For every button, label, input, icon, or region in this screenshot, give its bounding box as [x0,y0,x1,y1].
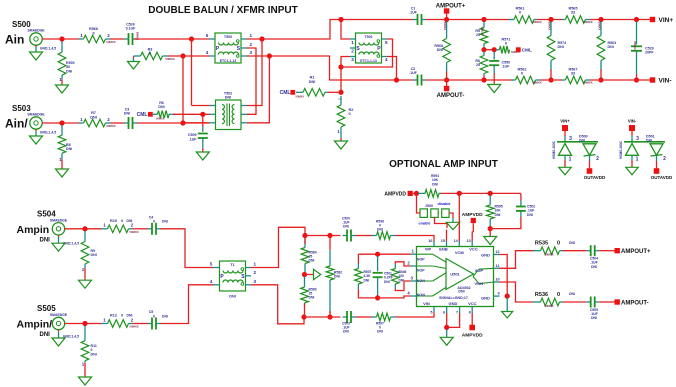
svg-text:DNI: DNI [91,352,97,356]
capacitor C505 .1UF DNI [586,301,591,303]
resistor R595 10K DNI [489,195,491,205]
ground at D500 [559,167,572,175]
node C550 top [492,47,497,52]
svg-text:CML: CML [522,48,532,53]
ground at R595 [484,237,497,245]
capacitor C529 20PF [636,22,638,45]
svg-text:11: 11 [495,264,499,268]
resistor R1 DNI (CML) [296,91,303,93]
resistor R546 100 DNI [395,262,410,266]
svg-text:25: 25 [476,33,480,37]
svg-text:enable: enable [418,222,430,226]
resistor R536 0 DNI [533,301,541,303]
svg-text:3: 3 [636,136,639,142]
svg-text:SMAEDGE: SMAEDGE [50,218,68,222]
ground at R500 [61,79,63,85]
svg-text:DNI: DNI [579,138,585,142]
node Ain/ to T502 [180,120,185,125]
node Ampin/ junction [82,321,87,326]
pin stubs U501 right [494,254,500,256]
resistor R3 0 (grounds T500 pin4 line) [134,55,136,57]
svg-text:DNI: DNI [364,278,370,282]
resistor R500 50 DNI (Ain termination) [61,41,63,52]
resistor R9 50 DNI [84,231,86,242]
resistor R6 DNI (CML feed) [153,113,158,115]
svg-text:4: 4 [210,279,213,284]
node AMPVDD junction [413,192,418,194]
wire R567 to VIN- [590,79,653,81]
wire T500 pin3 to bottom rail [247,56,414,80]
svg-text:AMPVDD: AMPVDD [462,333,483,339]
svg-text:50MXX: 50MXX [532,20,541,24]
capacitor C526 0.1UF [124,38,129,40]
svg-text:2: 2 [254,270,257,275]
pin stubs T502 [210,105,216,107]
wire R596 to VIP pin [396,236,435,242]
capacitor C509 .1UF (center tap decoupling) [202,117,204,127]
wire C500 to R596 [356,235,372,237]
svg-text:50MXX: 50MXX [129,325,138,329]
transformer T501 ETC1-1-13 (mirrored) [356,33,382,63]
svg-text:50MXX: 50MXX [106,40,115,44]
capacitor C3 DNI [124,122,129,124]
svg-text:1: 1 [250,33,253,38]
resistor R594 10K DNI [418,192,425,194]
pin stubs T1 [214,267,220,269]
svg-text:0.1UF: 0.1UF [126,27,137,31]
svg-text:DNI: DNI [569,241,575,245]
resistor R507 4.3K DNI [357,254,359,263]
node Ampin junction [82,226,87,231]
svg-text:5: 5 [210,262,213,267]
svg-text:1: 1 [351,40,354,45]
svg-text:5: 5 [430,310,432,314]
node amp ground [444,325,449,330]
ground at R9 [79,280,92,288]
resistor R562 0 [511,79,516,81]
svg-text:GND;1,4,5: GND;1,4,5 [40,131,56,135]
svg-text:5: 5 [385,40,388,45]
svg-text:DNI: DNI [225,96,231,100]
svg-text:VON: VON [474,281,483,286]
svg-text:DNI: DNI [384,280,390,284]
transformer T502 DNI (rotated) [216,100,242,130]
svg-text:R566: R566 [89,27,98,31]
svg-text:9: 9 [497,292,499,296]
svg-text:R12: R12 [110,314,117,318]
svg-text:0: 0 [557,240,560,246]
ground at amp [440,337,453,345]
node R582 top [327,233,332,238]
wire pin10 to R536 [500,282,534,302]
net CML square (divider) [516,47,521,52]
terminal AMPOUT- [446,80,448,86]
svg-text:VIN+: VIN+ [659,17,674,24]
svg-text:DNI: DNI [558,45,564,49]
svg-text:SMAEDGE: SMAEDGE [50,313,68,317]
wire VIP rail [305,235,341,237]
resistor R597 0 DNI (VIN rail) [372,316,377,318]
node CML mid divider [481,47,486,52]
capacitor C501 0.2PF DNI [377,256,379,271]
svg-text:T500: T500 [224,35,232,39]
vertical wire to T502 pin4 [182,56,184,123]
node VIN rail junction [301,314,306,319]
node AMPOUT+ rail corner [338,17,343,22]
node R595 bottom [488,226,493,231]
ground at S500 [35,45,37,47]
terminal OUTAVDD at D500 [587,168,593,174]
resistor R596 0 DNI (VIP rail) [372,235,377,237]
svg-text:OPTIONAL AMP INPUT: OPTIONAL AMP INPUT [389,159,498,170]
wire C503 to R597 [356,316,372,318]
svg-text:50MXX: 50MXX [106,124,115,128]
svg-text:Ampin: Ampin [17,224,50,236]
diode D500B (to OUTAVDD) [583,144,596,156]
ground at S503 [35,129,37,131]
svg-text:DOUBLE BALUN / XFMR INPUT: DOUBLE BALUN / XFMR INPUT [148,5,297,16]
svg-text:DNI: DNI [90,115,97,119]
terminal AMPOUT+ output [615,248,620,253]
svg-text:NON: NON [417,279,425,283]
node T501 CML node [338,64,343,69]
wire Ampin/ line [65,323,102,325]
wire T502 left pins [192,105,210,107]
svg-text:S504: S504 [37,210,56,219]
svg-text:DNI: DNI [91,253,97,257]
svg-text:2: 2 [250,42,253,47]
svg-text:DNI: DNI [124,112,130,116]
node R563 bottom [598,77,603,82]
svg-text:AMPVDD: AMPVDD [462,212,483,218]
svg-text:50MXX: 50MXX [544,304,553,308]
svg-text:AMPVDD: AMPVDD [384,191,406,197]
node amp output ground [505,294,510,299]
diode pair D501 DNI common bar [624,141,665,143]
svg-text:.1UF: .1UF [409,11,418,15]
svg-text:SMAEDGE: SMAEDGE [27,113,45,117]
wire C5 to T1 pin 4 [161,285,214,324]
svg-text:VIN-: VIN- [659,77,672,84]
svg-text:0: 0 [149,52,151,56]
svg-text:DNI: DNI [40,332,51,338]
svg-text:VIN-: VIN- [628,119,637,124]
node C529 top [634,17,639,22]
wire R562 to R567 [540,79,562,81]
resistor R584 25 DNI [304,238,306,248]
ground at output pins [502,312,513,319]
node Ain- branch junction [180,53,185,58]
wire R566 to C526 [111,38,125,40]
diode D500A (to ground) [559,144,572,156]
node AMPOUT+ junction [444,17,449,22]
transformer T500 ETC1-1-13 [215,33,241,63]
diode D501B (to OUTAVDD) [650,144,663,156]
ground at S505 [58,330,60,332]
pin stubs U501 top [433,241,435,247]
svg-text:DNI: DNI [158,105,164,109]
wire Ain/ line [42,122,78,124]
svg-text:S503: S503 [12,104,31,113]
wire T500 pin2 to T502 [247,48,257,114]
node Ain junction [59,36,64,41]
node T502 sec junction [267,53,272,58]
svg-text:ENB: ENB [439,247,448,252]
resistor R561 0 [509,19,514,21]
node VCM branch [457,191,462,196]
ground at S504 [58,235,60,237]
svg-text:Ampin/: Ampin/ [17,319,53,331]
svg-text:AMPOUT+: AMPOUT+ [621,249,651,255]
node B junction [375,295,380,300]
svg-text:DNI: DNI [495,213,501,217]
svg-text:SMAEDGE: SMAEDGE [27,29,45,33]
svg-text:DNI: DNI [343,330,349,334]
svg-text:DNI: DNI [343,225,349,229]
svg-text:VIP: VIP [425,247,432,252]
enable triangle on ENB net [446,222,459,229]
svg-text:ETC1-1-13: ETC1-1-13 [360,59,377,63]
resistor R8 50 DNI [61,125,63,135]
svg-text:DNI: DNI [432,182,438,186]
wire amp pin1 node A [358,253,410,255]
capacitor C2 .1UF [413,79,418,81]
svg-text:DNI: DNI [527,213,533,217]
svg-text:R7: R7 [91,111,96,115]
svg-text:50MXX: 50MXX [633,41,637,50]
svg-text:20PF: 20PF [645,51,654,55]
ground at R3 [133,56,135,58]
svg-text:SIGNAL=GND;17: SIGNAL=GND;17 [439,296,468,300]
ground at C509 [196,152,209,160]
wire T1 pin1 to amp VIP rail [251,227,305,267]
svg-text:VCM: VCM [455,250,465,255]
wire R7 to C3 [111,122,125,124]
svg-text:7: 7 [456,310,458,314]
svg-text:CML: CML [137,112,148,118]
wire amp GND pins to ground [446,313,448,327]
svg-text:50MXX: 50MXX [532,81,541,85]
resistor R6 25 [483,52,485,56]
svg-text:12: 12 [495,250,499,254]
wire C3 to T502 pin [137,122,210,124]
node R563 top [598,17,603,22]
node A junction [375,252,380,257]
connector S500 (SMAEDGE) Ain [30,33,42,45]
svg-text:13: 13 [466,239,470,243]
wire VIN rail [304,316,341,318]
svg-text:DNI: DNI [309,80,316,84]
svg-text:DNI: DNI [569,292,575,296]
op-amp U501 AD4932 DNI [417,247,494,307]
wire T500 pin1 to top rail [247,20,414,40]
resistor R12 0 DNI [102,323,108,325]
svg-text:0: 0 [557,292,560,298]
ground at C550 [488,85,501,93]
node R595 branch [488,191,493,196]
diode pair D500 DNI common bar [557,141,598,143]
resistor R5 25 [483,22,485,28]
wire T1 pin3 to amp VIN rail [251,285,304,324]
diode D501A (to ground) [626,144,639,156]
resistor R567 33 [562,79,565,81]
wire J500 pin3 [449,213,453,218]
node R6 bottom [481,77,486,82]
wire pin11 to R535 [500,251,534,269]
pin stubs T501 [350,38,356,40]
svg-text:DNI: DNI [591,265,597,269]
wire Ampin line [65,228,102,230]
wire AMPVDD rail [441,192,521,194]
svg-text:NOP: NOP [417,257,425,261]
wire R536 to C505 [563,301,586,303]
svg-text:.1UF: .1UF [409,71,418,75]
wire R595/C502 bottom to ground [489,229,491,237]
svg-text:50MXX: 50MXX [583,20,592,24]
svg-text:HSMS-280C: HSMS-280C [552,140,556,159]
resistor R10 0 DNI [102,228,108,230]
wire C4 to T1 pin 5 [161,229,214,268]
svg-text:DNI: DNI [162,314,168,318]
svg-text:DNI: DNI [646,138,652,142]
wire R597 to VIN pin [396,312,435,317]
svg-text:6: 6 [443,310,445,314]
svg-text:DNI: DNI [229,294,236,298]
svg-text:J500: J500 [425,204,433,208]
svg-text:0: 0 [153,314,155,318]
wire C504 to AMPOUT+ [599,250,614,252]
node VOCM sense [302,272,307,277]
svg-text:DNI: DNI [309,296,315,300]
svg-text:DNI: DNI [66,69,72,73]
wire T501 pin3 to CML node [341,57,350,68]
node AMPOUT- rail at T501 [394,77,399,82]
svg-text:50MXX: 50MXX [544,253,553,257]
svg-text:3: 3 [569,136,572,142]
svg-text:1: 1 [569,157,572,163]
svg-text:DNI: DNI [162,220,168,224]
wire VOP to R535 [500,255,508,297]
capacitor C503 .1UF DNI (VIN rail) [343,316,348,318]
svg-text:0: 0 [121,219,123,223]
svg-text:R10: R10 [110,219,117,223]
svg-text:NOP: NOP [417,269,425,273]
svg-text:5: 5 [206,33,209,38]
svg-text:VOP: VOP [475,268,484,273]
svg-text:T501: T501 [364,35,372,39]
svg-text:0: 0 [505,42,507,46]
svg-text:Ain: Ain [5,33,24,47]
wire divider mid to C550 [484,49,494,51]
node T500 input junction [189,36,194,41]
svg-text:50MXX: 50MXX [296,95,305,99]
capacitor C1 .1UF [413,19,418,21]
svg-text:OUTAVDD: OUTAVDD [584,175,606,180]
svg-text:AMPOUT-: AMPOUT- [437,93,465,99]
svg-text:Ain/: Ain/ [5,117,28,131]
terminal OUTAVDD at D501 [654,168,660,174]
svg-text:OUTAVDD: OUTAVDD [651,175,673,180]
node T502 pri junction [259,36,264,41]
svg-text:15: 15 [441,239,445,243]
svg-text:4: 4 [206,50,209,55]
svg-text:25: 25 [476,63,480,67]
node T502 center tap [200,112,205,117]
svg-text:3: 3 [254,279,257,284]
svg-text:4: 4 [385,57,388,62]
svg-text:0: 0 [121,314,123,318]
svg-text:DNI: DNI [309,259,315,263]
node R5 divider top [481,17,486,22]
svg-text:0: 0 [153,220,155,224]
capacitor C502 .1UF DNI [520,193,522,200]
wire T502 right pins [247,39,262,106]
svg-text:T1: T1 [230,263,234,267]
svg-text:GND: GND [481,253,490,258]
svg-text:33: 33 [571,11,575,15]
svg-text:HSMS-280C: HSMS-280C [619,140,623,159]
wire R535 to C504 [563,250,586,252]
node R582 bottom [327,314,332,319]
svg-text:VIN: VIN [423,301,430,306]
wire R565 to C529 [590,19,653,21]
terminal AMPVDD at VCC pin 8 [471,313,473,325]
wire C505 to AMPOUT- [599,301,614,303]
svg-text:VCC: VCC [469,247,478,252]
svg-text:0: 0 [521,72,523,76]
connector S503 (SMAEDGE) Ain/ [30,117,42,129]
wire C1 to AMPOUT+ node [426,19,445,21]
wire T501 pin4 to AMPOUT- rail [387,57,397,81]
capacitor C504 .1UF DNI [586,250,591,252]
svg-text:50MXX: 50MXX [165,57,174,61]
connector S504 (SMAEDGE) Ampin [52,223,64,235]
svg-text:50MXX: 50MXX [129,230,138,234]
svg-text:R535: R535 [535,240,548,246]
svg-text:2: 2 [596,156,599,162]
svg-text:CML50: CML50 [481,27,485,36]
svg-text:DNI: DNI [458,290,464,294]
pin stubs T500 [210,38,216,40]
wire node B to amp pin4 [378,296,411,298]
resistor R7 DNI [79,122,84,124]
svg-text:1: 1 [254,262,257,267]
terminal AMPOUT- output [615,299,620,304]
wire T501 pin1 up to AMPOUT+ rail [341,20,350,40]
wire VCM down to amp pin 14 [458,193,460,241]
capacitor C550 .1UF [493,52,495,60]
resistor R571 0 to CML [496,49,500,51]
ground at D501 [626,167,639,175]
resistor R535 0 DNI [533,250,541,252]
svg-text:U501: U501 [450,272,460,277]
wire R1 to CML node [328,91,341,93]
node Ain/ junction [59,120,64,125]
svg-text:VCC: VCC [468,301,477,306]
svg-text:0: 0 [519,11,521,15]
svg-text:DNI: DNI [40,238,51,244]
svg-text:NON: NON [417,293,425,297]
wire AMPVDD to J500 pin1 [417,193,421,213]
svg-text:GND: GND [481,296,490,301]
svg-text:50MXX: 50MXX [583,81,592,85]
wire R561 to R565 [537,19,562,21]
ground at R11 [79,377,92,385]
capacitor C4 0 DNI [148,228,153,230]
svg-text:R536: R536 [535,292,548,298]
terminal VIN+ [650,17,655,22]
wire C526 to T500 pin 5 [134,38,210,40]
